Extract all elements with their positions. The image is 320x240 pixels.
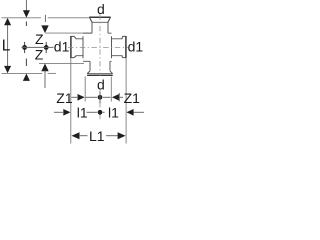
fitting: left rim face: [70, 36, 72, 58]
centerline vertical x=100: [99, 14, 101, 76]
Z1 row: center dot: [98, 95, 103, 100]
L1 row: right arrow: [118, 132, 126, 139]
outside dim line B top: [25, 0, 27, 11]
end extension line right x=126.1: [125, 58, 127, 144]
leader line to d1 left: [22, 46, 54, 48]
fitting: right rim face: [125, 36, 127, 58]
l1 row: center dot: [98, 110, 103, 115]
fitting: top socket body: [92, 22, 108, 33]
Z upper outside arrow down: [41, 25, 48, 33]
l1 row: left tail line: [54, 111, 63, 113]
fitting: hub: [83, 33, 112, 61]
fitting: top socket rim slants: [90, 17, 111, 22]
dim line C dash top: [44, 15, 46, 22]
svg-text:d1: d1: [54, 39, 70, 55]
Z lower outside arrow up: [41, 64, 48, 72]
outside arrow B down: [23, 10, 30, 17]
fitting: left rim box: [71, 36, 76, 57]
fitting: left pipe: [76, 39, 84, 56]
extension line top (y=17.8): [2, 17, 42, 19]
centerline horizontal run: [68, 46, 128, 48]
Z dim extension line upper (y=33.2): [46, 32, 93, 34]
svg-text:d1: d1: [128, 39, 144, 55]
svg-text:Z1: Z1: [124, 90, 141, 106]
l1 row: left arrow: [63, 109, 70, 116]
fitting: right pipe: [112, 39, 123, 56]
l1 row: line dot right: [103, 111, 105, 113]
Z1 row: right arrow: [112, 94, 119, 101]
Z1 row: left line: [72, 96, 78, 98]
svg-text:Z: Z: [35, 46, 44, 62]
Z dim extension line lower (y=63.3): [39, 62, 84, 64]
extension line bottom (y=73.4): [2, 72, 43, 74]
svg-text:L: L: [2, 37, 11, 54]
fitting: right rim box: [122, 36, 126, 57]
dim line C lower tail: [44, 71, 46, 89]
fitting: bottom rim double line: [87, 73, 113, 75]
fitting: top socket rim top edge: [89, 16, 111, 18]
stop extension line right x=111.3: [110, 77, 112, 102]
node dot C: [45, 42, 47, 53]
dimension L arrow down: [4, 66, 11, 73]
L1 row: left line: [79, 135, 88, 137]
svg-text:l1: l1: [108, 104, 119, 120]
svg-text:d: d: [97, 76, 105, 92]
node dot B: [24, 42, 26, 53]
svg-text:Z1: Z1: [56, 90, 73, 106]
centerline B dashes: [25, 22, 27, 27]
end extension line left x=70.8: [70, 58, 72, 144]
l1 row: line to dot: [87, 111, 98, 113]
Z1 row: line dot to right: [103, 96, 111, 98]
Z1 row: right tail line: [120, 96, 123, 98]
outside arrow B up: [23, 74, 30, 81]
l1 row: right arrow: [126, 109, 133, 116]
svg-text:Z: Z: [35, 31, 44, 47]
svg-text:d: d: [97, 1, 105, 17]
Z1 row: left arrow: [78, 94, 85, 101]
fitting: bottom socket body: [90, 61, 110, 71]
svg-text:l1: l1: [77, 104, 88, 120]
l1 row: right tail line: [134, 111, 145, 113]
Z1 row: right tick: [118, 93, 120, 101]
L1 row: left arrow: [72, 132, 80, 139]
stop extension line left x=85.2: [84, 77, 86, 102]
dimension L arrow up: [4, 18, 11, 25]
svg-text:L1: L1: [89, 128, 105, 144]
Z1 row: line to dot: [86, 96, 97, 98]
Z1 row: dot stub: [99, 92, 101, 104]
fitting: bottom socket flare: [87, 71, 112, 74]
L1 row: right line: [106, 135, 118, 137]
fitting: top socket rim bottom edge: [92, 21, 108, 23]
dimension L line: [7, 24, 9, 66]
